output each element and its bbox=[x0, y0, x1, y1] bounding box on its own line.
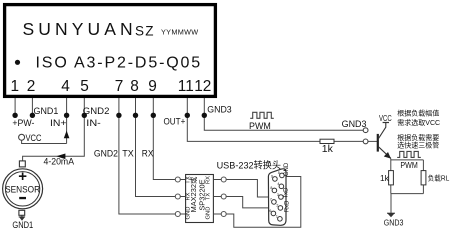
svg-text:PWM: PWM bbox=[400, 160, 417, 170]
svg-text:7: 7 bbox=[270, 198, 272, 202]
svg-text:1: 1 bbox=[11, 78, 20, 95]
svg-text:9: 9 bbox=[271, 175, 273, 179]
svg-text:12: 12 bbox=[194, 78, 211, 95]
svg-text:TX: TX bbox=[122, 149, 134, 160]
svg-text:5: 5 bbox=[80, 78, 89, 95]
svg-text:GND3: GND3 bbox=[342, 119, 367, 130]
svg-text:OUT+: OUT+ bbox=[164, 117, 186, 128]
svg-text:1: 1 bbox=[276, 215, 278, 219]
svg-text:GND: GND bbox=[284, 162, 290, 176]
svg-text:9: 9 bbox=[148, 78, 157, 95]
svg-text:8: 8 bbox=[270, 186, 272, 190]
svg-text:1k: 1k bbox=[380, 173, 390, 183]
svg-text:11: 11 bbox=[178, 78, 194, 95]
svg-text:6: 6 bbox=[269, 209, 271, 213]
svg-text:负载RL: 负载RL bbox=[428, 174, 450, 183]
svg-text:7: 7 bbox=[115, 78, 124, 95]
svg-text:8: 8 bbox=[130, 78, 139, 95]
svg-text:1k: 1k bbox=[322, 143, 334, 155]
svg-text:+PW-: +PW- bbox=[12, 118, 34, 129]
svg-text:SENSOR: SENSOR bbox=[5, 184, 40, 194]
svg-text:2: 2 bbox=[27, 78, 36, 95]
svg-text:YYMMWW: YYMMWW bbox=[161, 28, 198, 37]
svg-text:TxD: TxD bbox=[284, 187, 290, 199]
svg-text:需求选取VCC: 需求选取VCC bbox=[397, 118, 440, 127]
svg-text:2: 2 bbox=[276, 204, 278, 208]
svg-text:VCC: VCC bbox=[26, 133, 42, 144]
svg-text:SUNYUAN: SUNYUAN bbox=[23, 19, 137, 39]
svg-text:根据负载幅值: 根据负载幅值 bbox=[397, 109, 439, 118]
svg-text:SZ: SZ bbox=[135, 24, 155, 39]
svg-text:4-20mA: 4-20mA bbox=[44, 157, 75, 168]
svg-text:IN+: IN+ bbox=[50, 118, 67, 129]
svg-text:VCC: VCC bbox=[379, 114, 392, 123]
svg-text:USB-232转换头: USB-232转换头 bbox=[217, 160, 282, 172]
svg-text:GND1: GND1 bbox=[12, 220, 33, 230]
svg-text:根据负载需要: 根据负载需要 bbox=[397, 133, 439, 142]
svg-text:GND1: GND1 bbox=[34, 106, 59, 117]
svg-text:GND3: GND3 bbox=[384, 218, 404, 228]
svg-text:GND3: GND3 bbox=[207, 105, 231, 116]
svg-text:5: 5 bbox=[278, 171, 280, 175]
svg-text:SP3220E: SP3220E bbox=[198, 179, 207, 210]
svg-text:4: 4 bbox=[277, 182, 279, 186]
svg-text:RxD: RxD bbox=[284, 200, 290, 212]
svg-text:ISO A3-P2-D5-Q05: ISO A3-P2-D5-Q05 bbox=[36, 54, 203, 71]
svg-text:GND2: GND2 bbox=[83, 106, 110, 117]
svg-text:IN-: IN- bbox=[86, 118, 101, 129]
svg-text:选快速三极管: 选快速三极管 bbox=[397, 141, 439, 150]
svg-text:+: + bbox=[18, 168, 27, 185]
svg-text:4: 4 bbox=[61, 78, 70, 95]
svg-text:PWM: PWM bbox=[249, 120, 271, 131]
svg-text:3: 3 bbox=[277, 193, 279, 197]
svg-text:GND2: GND2 bbox=[94, 149, 118, 160]
svg-text:RX: RX bbox=[142, 149, 154, 160]
